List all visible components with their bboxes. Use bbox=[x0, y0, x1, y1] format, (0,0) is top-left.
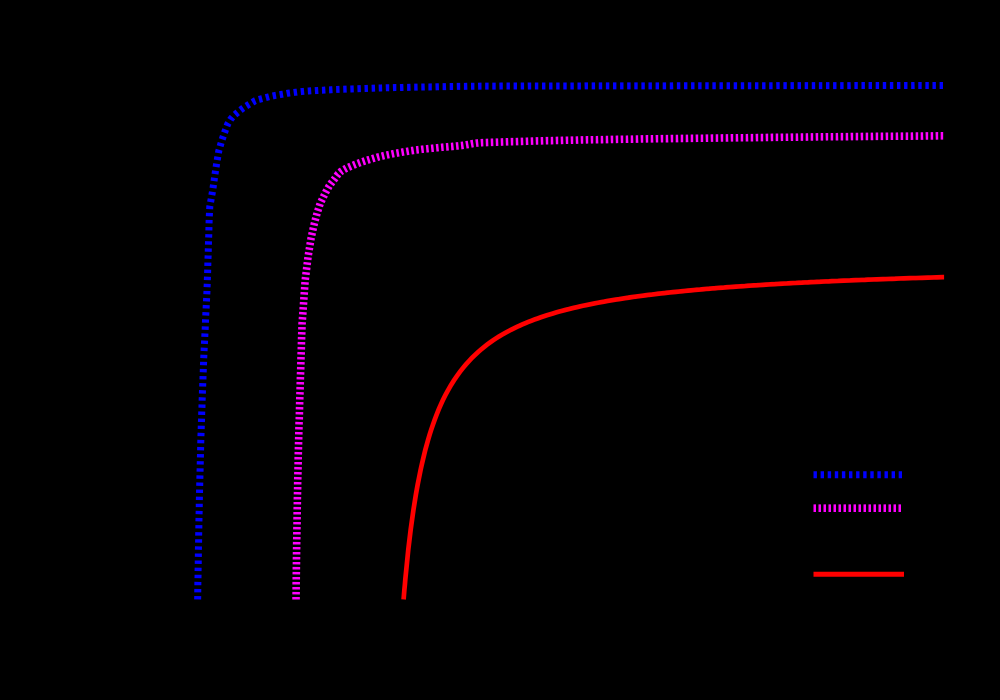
legend sample red bbox=[814, 572, 905, 577]
curve red solid bbox=[404, 277, 945, 599]
curve magenta dashed bbox=[296, 136, 944, 600]
legend sample magenta bbox=[814, 504, 903, 512]
curve blue dashed bbox=[198, 85, 944, 599]
legend sample blue bbox=[814, 471, 903, 478]
